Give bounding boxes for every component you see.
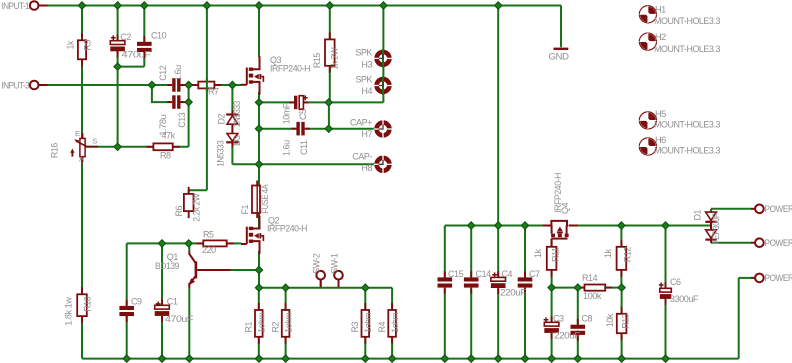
svg-text:R8: R8: [160, 151, 171, 161]
svg-text:S: S: [92, 136, 97, 145]
svg-text:SPK: SPK: [355, 75, 372, 85]
svg-text:SW-2: SW-2: [312, 253, 322, 273]
svg-text:C2: C2: [120, 32, 131, 42]
svg-text:H5: H5: [655, 109, 666, 119]
svg-text:H6: H6: [655, 135, 666, 145]
svg-text:H2: H2: [655, 32, 666, 42]
svg-text:1k: 1k: [603, 248, 613, 258]
svg-text:C6: C6: [670, 277, 681, 287]
svg-text:CAP-: CAP-: [352, 152, 372, 162]
svg-text:R7: R7: [208, 87, 219, 97]
svg-text:POWER: POWER: [765, 204, 792, 214]
svg-text:Q4: Q4: [560, 202, 570, 214]
svg-text:R9: R9: [83, 39, 93, 50]
svg-text:MOUNT-HOLE3.3: MOUNT-HOLE3.3: [654, 120, 720, 130]
svg-text:C12: C12: [158, 65, 168, 81]
svg-text:470uF: 470uF: [122, 49, 152, 59]
svg-text:R1: R1: [244, 321, 254, 332]
svg-text:SW-1: SW-1: [329, 253, 339, 273]
svg-text:H7: H7: [361, 129, 372, 139]
svg-text:C8: C8: [582, 313, 593, 323]
svg-text:MOUNT-HOLE3.3: MOUNT-HOLE3.3: [654, 146, 720, 156]
svg-text:R6: R6: [174, 205, 184, 216]
svg-text:1k: 1k: [533, 248, 543, 258]
svg-text:10k: 10k: [605, 313, 615, 327]
svg-text:F1: F1: [240, 204, 250, 214]
svg-text:E: E: [75, 129, 80, 138]
svg-text:POWER: POWER: [765, 273, 792, 283]
svg-text:R4: R4: [377, 321, 387, 332]
svg-text:C10: C10: [151, 31, 167, 41]
svg-text:470uF: 470uF: [165, 314, 194, 324]
svg-text:R14: R14: [582, 273, 598, 283]
svg-text:R5: R5: [203, 230, 214, 240]
svg-text:1ohm: 1ohm: [283, 313, 293, 333]
svg-text:SPK: SPK: [355, 48, 372, 58]
svg-text:R11: R11: [551, 247, 561, 262]
svg-text:H3: H3: [361, 60, 372, 70]
svg-text:C5: C5: [298, 109, 308, 120]
svg-text:C11: C11: [299, 140, 309, 155]
svg-text:C3: C3: [553, 313, 564, 323]
svg-text:1N5333: 1N5333: [216, 140, 226, 166]
svg-text:C4: C4: [502, 269, 513, 279]
svg-text:IRFP240-H: IRFP240-H: [267, 224, 307, 234]
svg-text:220uF: 220uF: [554, 330, 581, 340]
svg-text:100k: 100k: [583, 291, 602, 301]
svg-text:1.8k 1w: 1.8k 1w: [64, 297, 74, 326]
svg-text:1.6u: 1.6u: [282, 140, 292, 156]
svg-text:D1: D1: [693, 209, 703, 220]
svg-text:R12: R12: [623, 247, 633, 263]
svg-text:220: 220: [202, 245, 216, 255]
svg-text:MOUNT-HOLE3.3: MOUNT-HOLE3.3: [654, 44, 720, 54]
svg-text:1N5333: 1N5333: [232, 101, 242, 127]
svg-text:R15: R15: [312, 53, 322, 69]
svg-text:C14: C14: [476, 269, 492, 279]
svg-text:INPUT-1: INPUT-1: [2, 1, 30, 11]
svg-text:FUSE 4A: FUSE 4A: [260, 184, 270, 213]
svg-text:D3: D3: [232, 135, 242, 146]
svg-text:MOUNT-HOLE3.3: MOUNT-HOLE3.3: [654, 16, 720, 26]
svg-text:H1: H1: [655, 4, 666, 14]
svg-text:C7: C7: [529, 269, 540, 279]
svg-text:2.2k 2W: 2.2k 2W: [192, 193, 202, 222]
svg-text:1ohm: 1ohm: [390, 313, 400, 333]
svg-text:FEP30JP: FEP30JP: [711, 213, 721, 244]
svg-text:10mF: 10mF: [282, 102, 292, 124]
svg-text:R13: R13: [620, 313, 630, 329]
svg-text:220uF: 220uF: [500, 287, 527, 297]
svg-text:R10: R10: [83, 296, 93, 312]
svg-text:R2: R2: [270, 321, 280, 332]
svg-text:INPUT-3: INPUT-3: [2, 80, 30, 90]
svg-text:POWER: POWER: [765, 238, 792, 248]
svg-text:BD139: BD139: [155, 261, 179, 271]
svg-text:1k 2W: 1k 2W: [330, 47, 340, 70]
svg-text:CAP+: CAP+: [350, 118, 372, 128]
svg-text:R3: R3: [350, 321, 360, 332]
svg-text:3300uF: 3300uF: [670, 294, 699, 304]
svg-text:1ohm: 1ohm: [257, 313, 267, 333]
svg-text:C9: C9: [131, 296, 142, 306]
svg-text:C1: C1: [167, 296, 178, 306]
svg-text:H8: H8: [361, 163, 372, 173]
svg-text:1.6u: 1.6u: [173, 65, 183, 81]
svg-text:GND: GND: [549, 52, 570, 62]
svg-text:H4: H4: [361, 86, 372, 96]
svg-text:IRFP240-H: IRFP240-H: [270, 64, 310, 74]
svg-text:1k: 1k: [66, 40, 76, 50]
svg-text:R16: R16: [50, 143, 60, 159]
svg-text:C13: C13: [177, 112, 187, 128]
svg-text:A: A: [79, 155, 84, 164]
svg-text:C15: C15: [448, 269, 464, 279]
svg-text:47k: 47k: [162, 131, 176, 141]
svg-text:D2: D2: [217, 113, 227, 124]
svg-text:1ohm: 1ohm: [363, 313, 373, 333]
